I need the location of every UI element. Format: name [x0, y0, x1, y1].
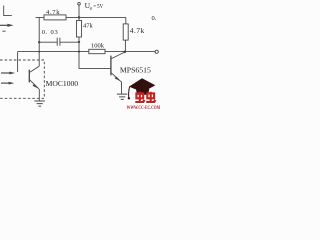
svg-text:WWW.CC-EC.COM: WWW.CC-EC.COM: [127, 105, 160, 110]
wire left vertical: [38, 17, 40, 66]
wire circle to rail: [78, 5, 80, 17]
svg-text:100k: 100k: [91, 43, 105, 50]
node mid 47k bottom: [78, 51, 80, 53]
ground right: [117, 94, 127, 99]
transistor Q2 MPS6515: [110, 56, 112, 76]
resistor R3 100k: [89, 49, 105, 53]
resistor R1 4.7k horizontal: [44, 15, 66, 20]
input arrow top-left: [0, 24, 8, 26]
input arrow head top-left: [7, 24, 13, 27]
optocoupler U1 dashed box: [0, 60, 44, 98]
watermark bug char 1: [135, 92, 145, 102]
resistor R4 4.7k vertical: [123, 24, 128, 40]
node collector: [123, 50, 126, 53]
watermark cap: [129, 78, 155, 92]
watermark bug char 2: [146, 92, 156, 102]
svg-text:MPS6515: MPS6515: [120, 66, 151, 75]
svg-text:MOC1000: MOC1000: [46, 79, 79, 88]
transistor Q1 photo: [28, 70, 30, 83]
node rail junction: [78, 16, 81, 19]
svg-text:4.7k: 4.7k: [130, 26, 145, 35]
wire base drop: [79, 52, 111, 69]
terminal Ua circle: [78, 2, 81, 5]
svg-text:0.: 0.: [152, 15, 157, 22]
node cap right: [78, 41, 80, 43]
svg-text:4.7k: 4.7k: [46, 9, 60, 16]
resistor R2 47k vertical: [78, 17, 80, 51]
light arrow 2: [1, 82, 9, 84]
ground left: [34, 101, 45, 106]
long mid wire: [18, 51, 156, 53]
+5V rail: [36, 16, 126, 18]
wire stub top-left L: [4, 6, 12, 16]
svg-text:0. 03: 0. 03: [42, 29, 58, 36]
wire tick below arrow: [2, 30, 5, 32]
svg-text:47k: 47k: [83, 23, 94, 30]
wire rail corner right: [125, 17, 127, 24]
node mid-left crossing: [38, 51, 40, 53]
terminal output circle: [155, 50, 158, 53]
svg-text:= 5V: = 5V: [93, 3, 103, 10]
wire left corner vertical: [17, 52, 19, 72]
capacitor C1 0.03: [39, 38, 79, 46]
light arrow 1: [1, 72, 10, 74]
node cap left: [38, 41, 40, 43]
svg-text:a: a: [90, 6, 93, 11]
